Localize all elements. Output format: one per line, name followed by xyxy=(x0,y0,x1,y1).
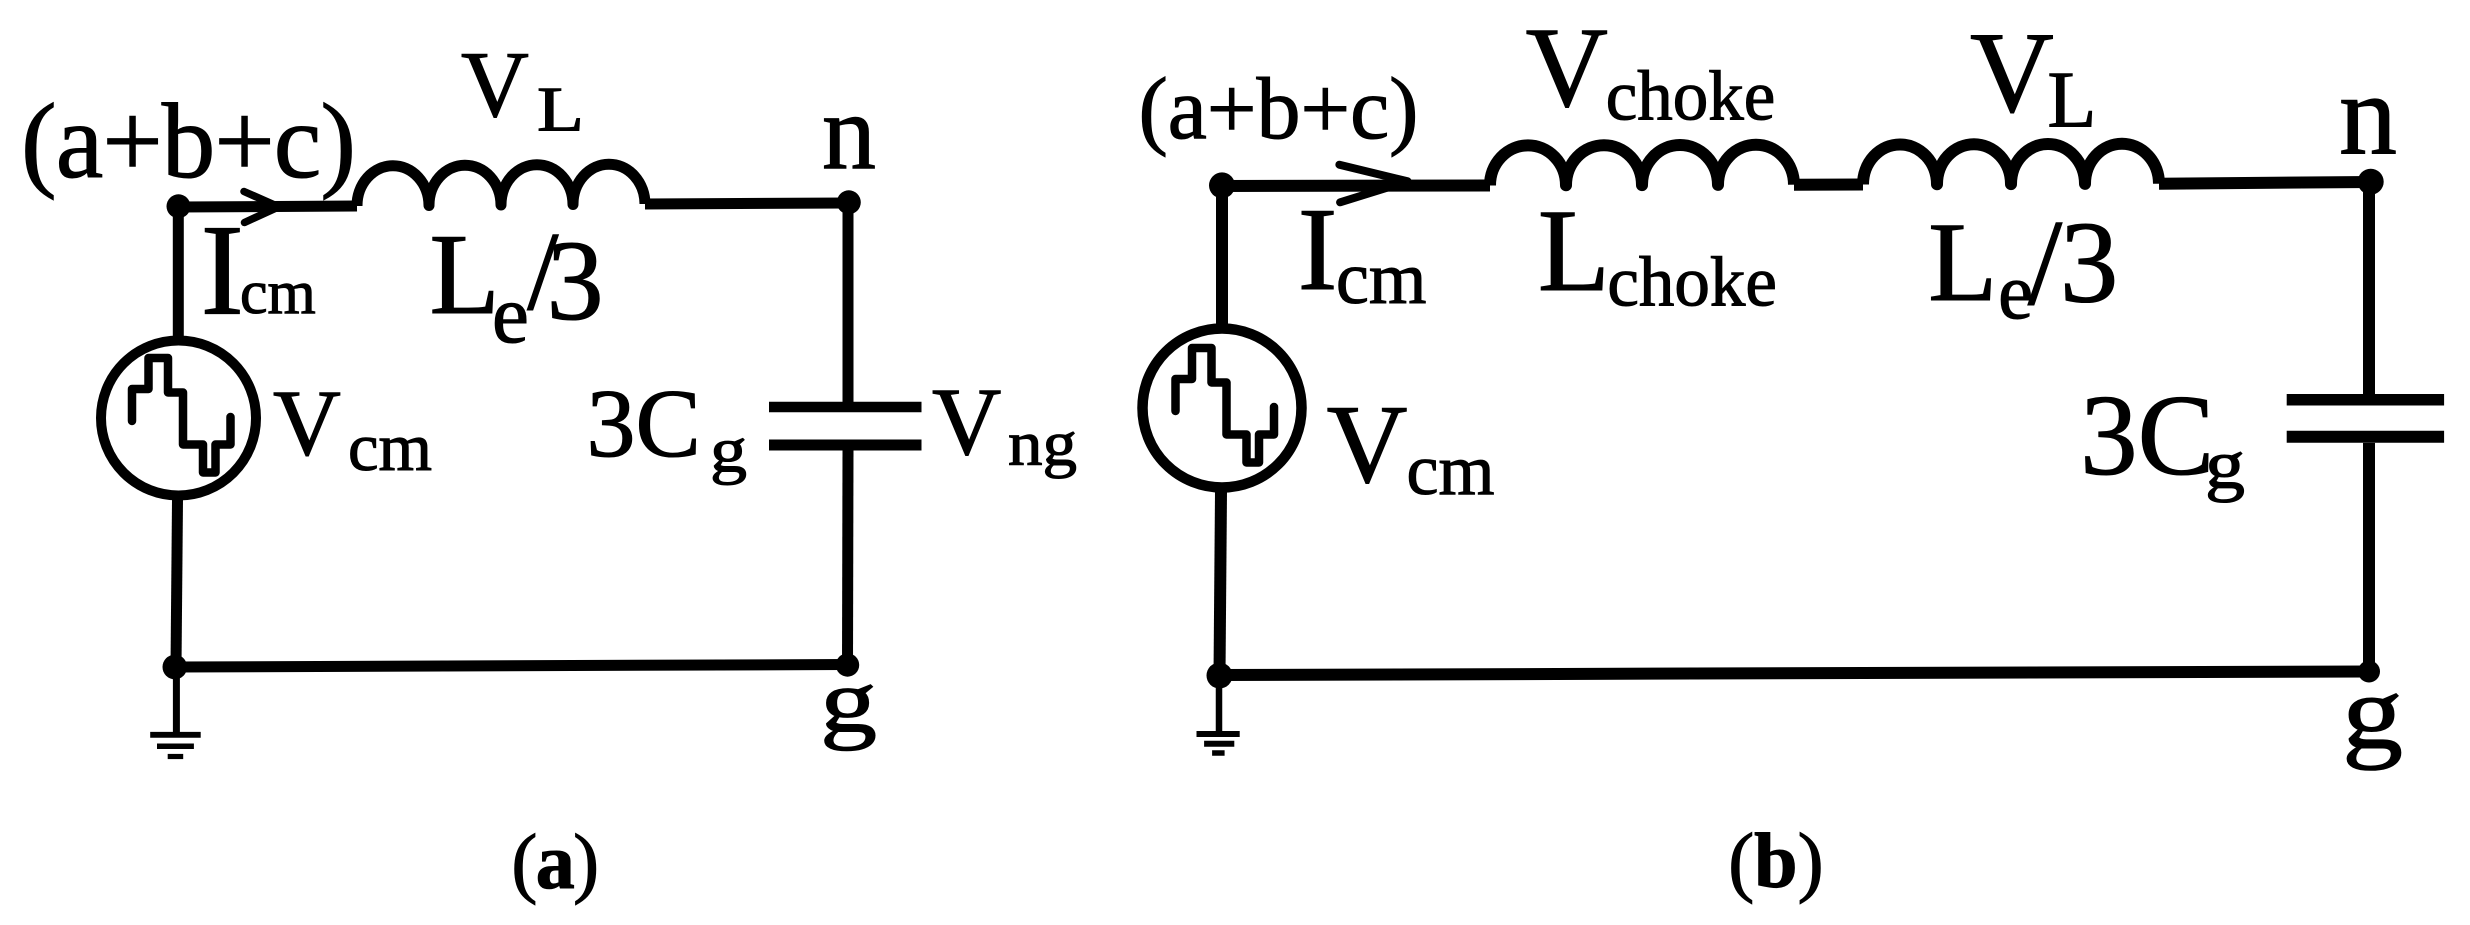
voltage source waveform (b) xyxy=(1176,348,1275,463)
svg-text:choke: choke xyxy=(1607,244,1777,322)
svg-text:L: L xyxy=(430,211,500,338)
svg-text:L: L xyxy=(537,75,584,145)
voltage source waveform (a) xyxy=(132,358,231,473)
svg-text:(a+b+c): (a+b+c) xyxy=(21,83,355,201)
wire: bottom wire (a) xyxy=(176,665,848,668)
svg-text:/: / xyxy=(2028,194,2063,331)
svg-text:3C: 3C xyxy=(587,370,701,478)
svg-text:e: e xyxy=(492,268,529,360)
wire: left vertical from node to source top (a) xyxy=(173,201,184,336)
svg-text:V: V xyxy=(273,372,341,476)
svg-text:(b): (b) xyxy=(1728,817,1823,904)
svg-text:V: V xyxy=(461,33,529,137)
svg-text:g: g xyxy=(2342,654,2403,771)
wire: right vertical capacitor to node g (b) xyxy=(2363,443,2375,672)
ground bar 1 (b) xyxy=(1197,731,1240,737)
svg-text:n: n xyxy=(822,74,876,193)
svg-text:n: n xyxy=(2339,52,2397,180)
wire: top wire from inductor to node n (a) xyxy=(645,203,849,204)
node g dot (a) xyxy=(836,653,859,676)
current arrow Icm (b) xyxy=(1339,165,1407,203)
svg-text:ng: ng xyxy=(1008,408,1077,479)
svg-text:L: L xyxy=(1538,185,1610,316)
svg-text:3: 3 xyxy=(547,217,604,344)
svg-text:(a+b+c): (a+b+c) xyxy=(1139,61,1419,158)
node g dot (b) xyxy=(2358,661,2380,683)
node n dot (b) xyxy=(2358,169,2384,195)
svg-text:V: V xyxy=(1327,383,1408,507)
ground bar 1 (a) xyxy=(150,732,201,738)
ground bar 3 (b) xyxy=(1212,750,1225,756)
node n dot (a) xyxy=(837,190,861,214)
ground bar 3 (a) xyxy=(168,754,184,759)
ground bar 2 (a) xyxy=(157,744,194,750)
wire: top wire from source node to inductor (a) xyxy=(178,206,357,207)
node (a+b+c) junction dot (a) xyxy=(167,194,191,218)
wire: left vertical from source bottom to ground node (a) xyxy=(176,500,178,667)
wire: top wire from source node to choke (b) xyxy=(1222,180,1490,193)
node bottom-left junction dot (a) xyxy=(163,655,188,680)
ground stem (b) xyxy=(1216,678,1223,734)
svg-text:3C: 3C xyxy=(2080,372,2214,499)
svg-text:cm: cm xyxy=(348,409,432,485)
svg-text:V: V xyxy=(932,368,1001,475)
svg-text:I: I xyxy=(201,199,244,343)
wire: right vertical node n to capacitor (a) xyxy=(843,202,854,402)
svg-text:V: V xyxy=(1970,10,2054,138)
wire: left vertical from node to source top (b) xyxy=(1216,181,1228,329)
capacitor 3Cg top plate (a) xyxy=(769,402,922,413)
wire: right vertical node n to capacitor (b) xyxy=(2363,182,2375,395)
svg-text:L: L xyxy=(1928,200,1997,325)
svg-text:g: g xyxy=(820,652,877,751)
wire: right vertical capacitor to node g (a) xyxy=(842,450,854,665)
node (a+b+c) junction dot (b) xyxy=(1209,172,1235,198)
capacitor 3Cg bottom plate (b) xyxy=(2287,431,2444,443)
inductor Le/3 (b) xyxy=(1863,144,2159,185)
svg-text:(a): (a) xyxy=(511,818,597,905)
svg-text:cm: cm xyxy=(1336,238,1426,320)
node bottom-left junction dot (b) xyxy=(1207,663,1233,689)
svg-text:3: 3 xyxy=(2060,198,2119,327)
inductor Le/3 (a) xyxy=(357,164,645,206)
voltage source Vcm circle (a) xyxy=(101,341,256,496)
svg-text:cm: cm xyxy=(1407,430,1495,510)
svg-text:L: L xyxy=(2048,57,2097,145)
wire: bottom wire (b) xyxy=(1220,672,2370,676)
voltage source Vcm circle (b) xyxy=(1143,329,1302,488)
svg-text:cm: cm xyxy=(240,259,316,327)
svg-text:choke: choke xyxy=(1606,57,1776,135)
svg-text:g: g xyxy=(2205,427,2245,503)
ground stem (a) xyxy=(173,672,180,735)
wire: left vertical from source bottom to ground node (b) xyxy=(1220,492,1222,675)
svg-text:V: V xyxy=(1526,4,1608,131)
svg-text:g: g xyxy=(710,415,747,486)
inductor Lchoke (b) xyxy=(1490,145,1794,186)
wire: top wire from inductor to node n (b) xyxy=(2159,182,2371,184)
wire: between inductors (b) xyxy=(1794,179,1863,191)
ground bar 2 (b) xyxy=(1204,741,1234,747)
svg-text:I: I xyxy=(1298,183,1338,315)
current arrow Icm (a) xyxy=(244,192,279,223)
capacitor 3Cg top plate (b) xyxy=(2287,394,2444,406)
capacitor 3Cg bottom plate (a) xyxy=(769,440,922,451)
